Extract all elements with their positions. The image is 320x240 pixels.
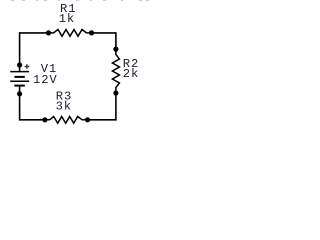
- resistor R2: [112, 49, 119, 93]
- node dot battery bottom: [17, 91, 22, 96]
- node dot R2 bottom: [113, 90, 118, 95]
- node dot R1 right: [89, 30, 94, 35]
- svg-text:3k: 3k: [56, 99, 72, 113]
- node dot R3 right: [85, 117, 90, 122]
- battery V1 long plate 1: [10, 71, 29, 73]
- plus sign: [25, 64, 30, 69]
- svg-text:12V: 12V: [33, 73, 58, 87]
- wire R1 right to top-right corner down to R2 top: [92, 33, 116, 49]
- node dot battery top: [17, 62, 22, 67]
- battery V1 short plate 2: [14, 85, 24, 87]
- battery V1 long plate 2: [10, 80, 29, 82]
- resistor R1: [49, 30, 92, 37]
- wire R3 left to bottom-left corner up to battery bottom: [20, 94, 45, 120]
- battery V1 stub top: [19, 65, 21, 72]
- svg-text:2k: 2k: [123, 67, 139, 81]
- node dot R1 left: [46, 30, 51, 35]
- wire top-left to R1 left: [20, 33, 49, 65]
- battery V1 stub bottom: [19, 86, 21, 94]
- wire R2 bottom to bottom-right corner to R3 right: [88, 93, 116, 120]
- resistor R3: [45, 117, 88, 124]
- battery V1 short plate 1: [14, 76, 24, 78]
- svg-text:1k: 1k: [59, 12, 75, 26]
- node dot R2 top: [113, 47, 118, 52]
- faint clipped text remnants along top edge: [11, 0, 149, 1]
- node dot R3 left: [42, 117, 47, 122]
